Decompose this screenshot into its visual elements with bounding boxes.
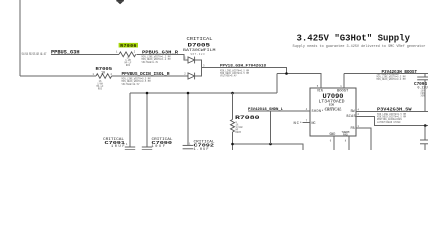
node P3V42G3H_BOOST (377, 71, 418, 81)
svg-text:1.0UF: 1.0UF (194, 148, 209, 150)
wire GND stub pin 6 (330, 136, 334, 150)
diode D7005 top (pin 1) (184, 56, 194, 63)
svg-text:GND: GND (330, 132, 336, 136)
svg-text:10UF: 10UF (111, 145, 125, 149)
svg-text:EDB: EDB (329, 104, 335, 107)
svg-text:MIN_NECK_WIDTH=0.3 MM: MIN_NECK_WIDTH=0.3 MM (377, 78, 407, 81)
wire VIN feed line (277, 74, 321, 89)
resistor R7006 (highlighted) (116, 43, 138, 67)
node PPBUS_G3H_R (142, 49, 179, 64)
capacitor C7094 (414, 74, 428, 112)
svg-text:VOLTAGE=8.4V: VOLTAGE=8.4V (220, 75, 237, 78)
svg-text:SHDN*: SHDN* (312, 109, 324, 114)
svg-text:R03: R03 (98, 88, 103, 91)
junction dot VIN node (285, 72, 288, 75)
wire bypass bus (130, 92, 277, 94)
node PPV18_G3H_F7042G18 (220, 65, 267, 78)
power symbol PPBUS (cropped at top) (116, 0, 124, 4)
node NC stub pin 7 (294, 120, 311, 127)
wire BIAS pin 2 to output node (356, 113, 428, 125)
wire BOOST net to right edge (344, 73, 428, 75)
junction dot C7092 tap (187, 92, 190, 95)
node P3V42G3H_SW (377, 108, 412, 124)
wire SHDN to U7090 pin 4 (248, 108, 310, 111)
wire SHDN pull drop (270, 111, 272, 144)
wire common cathode bus (pin 3) (195, 60, 205, 76)
wire BOOST stub pin 1 (340, 74, 344, 89)
diode D7005 labels (183, 36, 216, 56)
svg-text:P3V42G18_SHDN_L: P3V42G18_SHDN_L (248, 108, 284, 112)
op-amp U7090 regulator body (310, 88, 356, 137)
wire vertical from top-left (19, 0, 21, 76)
svg-text:NC*: NC* (294, 121, 303, 126)
resistor R7005 (93, 66, 113, 90)
wire VIN stub pin 5 (317, 74, 321, 89)
svg-text:P3V42G3H_SW: P3V42G3H_SW (377, 108, 412, 113)
svg-text:Supply needs to guarantee 3.42: Supply needs to guarantee 3.425V deliver… (293, 44, 426, 49)
junction dot R7080 bottom (231, 143, 234, 146)
wire R7006 to D7005 anode (step down) (137, 54, 188, 60)
svg-text:R005: R005 (236, 131, 242, 134)
node PPVBUS_DCIN_ISOL_R (122, 72, 170, 86)
svg-text:X5R: X5R (421, 94, 426, 97)
svg-text:VOLTAGE=18.5V: VOLTAGE=18.5V (122, 83, 141, 86)
wire bottom-left corner to R7005 (20, 75, 96, 77)
svg-text:NC: NC (312, 122, 316, 126)
wire VIN bypass drop (276, 74, 278, 94)
wire R7005 to D7005 bottom anode (112, 75, 189, 77)
capacitor C7091 (103, 93, 135, 150)
junction dot SHDN drop (269, 143, 272, 146)
capacitor C7095 (420, 126, 428, 150)
svg-text:3.425V "G3Hot" Supply: 3.425V "G3Hot" Supply (297, 34, 411, 44)
wire FB pin 3 drop (356, 125, 371, 150)
svg-text:CRITICAL: CRITICAL (325, 107, 343, 111)
capacitor C7090 (142, 93, 173, 150)
svg-text:10UF: 10UF (152, 145, 166, 149)
wire THERM PAD stub pin 8 (345, 136, 349, 150)
wire SW net pin 4 (356, 108, 428, 111)
node PPBUS_G3H (51, 49, 80, 55)
svg-text:VOLTAGE=P3V42G3H: VOLTAGE=P3V42G3H (377, 73, 400, 76)
svg-text:BIAS: BIAS (347, 115, 356, 119)
svg-text:VOLTAGE=8.4V: VOLTAGE=8.4V (142, 61, 159, 64)
wire bottom bus (233, 144, 304, 150)
svg-text:FB: FB (351, 127, 355, 131)
junction dot output/C7095 (424, 124, 427, 127)
svg-text:54 54 55 55 82 41 47: 54 54 55 55 82 41 47 (22, 52, 47, 56)
title (293, 34, 426, 49)
svg-text:R03: R03 (126, 64, 131, 67)
junction dot C7090 tap (146, 92, 149, 95)
svg-text:PAD: PAD (343, 134, 348, 137)
sheet reference numbers (22, 52, 47, 56)
junction dot R7080 tap (231, 92, 234, 95)
svg-text:PPV18_G3H_F7042G18: PPV18_G3H_F7042G18 (220, 65, 267, 69)
svg-text:SOT-323: SOT-323 (191, 53, 206, 56)
wire diode output to VIN corner (202, 68, 287, 74)
resistor R7080 (231, 93, 261, 150)
svg-text:R7006: R7006 (120, 43, 136, 49)
svg-text:LAYOUT=NEAR U7090: LAYOUT=NEAR U7090 (377, 121, 401, 124)
wire PPBUS_G3H to R7006 (51, 53, 119, 55)
node P3V42G18_SHDN_L (248, 108, 284, 112)
capacitor C7092 (183, 93, 216, 152)
svg-text:D7005: D7005 (188, 42, 211, 49)
svg-text:R7080: R7080 (235, 114, 260, 121)
diode D7005 bottom (pin 2) (184, 72, 194, 79)
